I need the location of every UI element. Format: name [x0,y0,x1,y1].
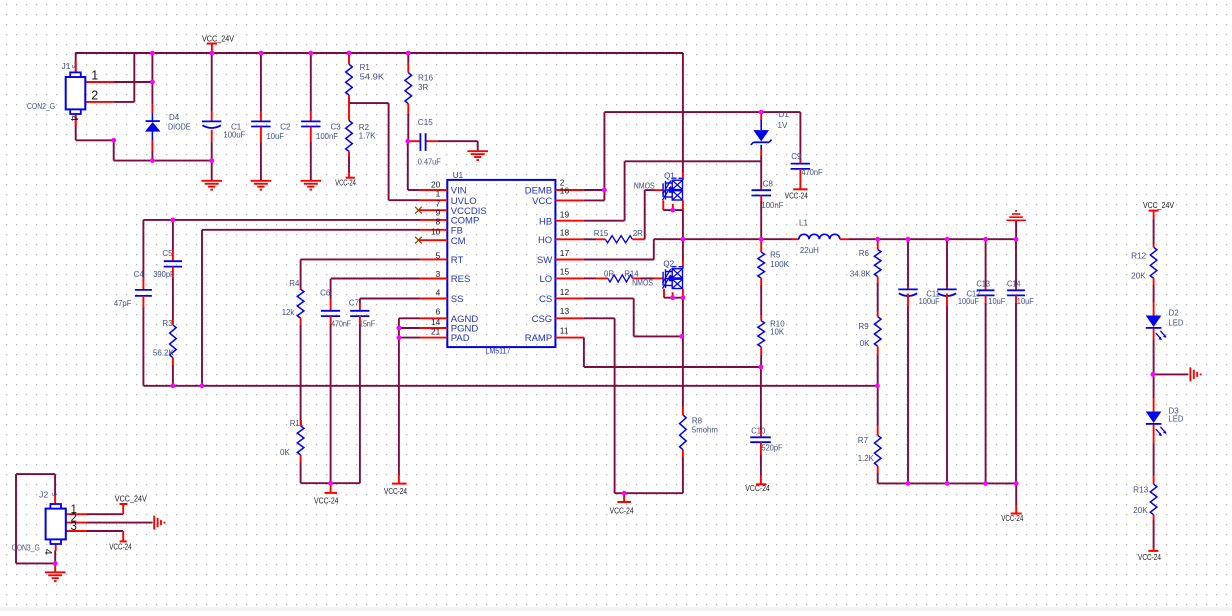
svg-text:5mohm: 5mohm [692,426,718,435]
svg-text:RT: RT [451,255,464,266]
svg-text:NMOS: NMOS [632,279,653,288]
svg-text:12: 12 [560,287,570,297]
svg-text:VCC-24: VCC-24 [745,484,770,493]
svg-text:C13: C13 [977,280,991,289]
svg-text:D4: D4 [169,113,180,122]
svg-text:13: 13 [560,306,570,316]
svg-text:15nF: 15nF [359,319,375,328]
svg-text:3R: 3R [418,83,428,92]
svg-text:R6: R6 [859,249,870,258]
svg-text:LO: LO [540,274,553,285]
svg-text:HB: HB [539,216,552,227]
svg-text:11: 11 [560,326,569,336]
svg-text:16: 16 [560,186,570,196]
svg-text:C5: C5 [162,249,173,258]
svg-text:L1: L1 [799,218,808,227]
svg-text:470nF: 470nF [331,319,351,328]
svg-text:VCC-24: VCC-24 [1001,514,1023,523]
svg-text:VCC: VCC [532,196,552,207]
svg-text:VCC_24V: VCC_24V [202,34,234,43]
svg-text:8: 8 [436,216,441,226]
svg-text:CSG: CSG [532,314,553,325]
svg-text:R8: R8 [692,416,703,425]
svg-text:100nF: 100nF [316,132,338,141]
svg-text:470nF: 470nF [802,168,823,177]
svg-text:R12: R12 [1131,252,1147,261]
svg-text:VCC-24: VCC-24 [384,487,407,496]
svg-text:VCC-24: VCC-24 [610,507,634,516]
svg-text:RAMP: RAMP [525,333,552,344]
svg-text:D2: D2 [1169,309,1180,318]
svg-text:1V: 1V [778,121,788,130]
svg-text:4: 4 [68,115,80,121]
svg-text:18: 18 [560,228,570,238]
svg-text:1: 1 [91,68,98,82]
svg-text:1: 1 [436,189,441,199]
svg-text:C9: C9 [791,152,802,161]
svg-text:R15: R15 [594,229,609,238]
svg-text:SW: SW [537,255,552,266]
svg-text:R5: R5 [770,251,781,260]
svg-text:R7: R7 [858,436,869,445]
svg-text:22uH: 22uH [800,246,819,255]
svg-text:5: 5 [436,250,441,260]
svg-text:DIODE: DIODE [168,122,191,131]
svg-text:20K: 20K [1131,271,1146,280]
svg-text:20K: 20K [1133,506,1148,515]
svg-text:PAD: PAD [451,333,470,344]
svg-text:34.8K: 34.8K [850,270,872,279]
svg-text:C4: C4 [134,270,145,279]
svg-text:NMOS: NMOS [634,182,655,191]
svg-text:6: 6 [436,306,441,316]
svg-text:VCC-24: VCC-24 [1138,553,1161,562]
svg-text:1.7K: 1.7K [359,132,377,141]
svg-text:2R: 2R [633,229,643,238]
svg-text:C3: C3 [331,123,342,132]
svg-text:3: 3 [436,269,441,279]
svg-text:C2: C2 [280,123,291,132]
svg-text:19: 19 [560,210,570,220]
svg-text:R16: R16 [418,74,434,83]
svg-text:47pF: 47pF [114,299,132,308]
svg-text:1.2K: 1.2K [858,454,875,463]
svg-text:0R: 0R [604,269,614,278]
svg-text:U1: U1 [453,171,464,180]
svg-text:3: 3 [71,521,77,533]
svg-text:VCC-24: VCC-24 [335,179,356,188]
svg-text:SS: SS [451,294,464,305]
svg-text:CS: CS [539,294,552,305]
svg-text:VCC_24V: VCC_24V [1143,201,1174,210]
svg-text:C7: C7 [349,299,360,308]
svg-text:100uF: 100uF [958,297,979,306]
svg-text:DEMB: DEMB [525,186,552,197]
svg-text:D1: D1 [779,110,790,119]
svg-text:3: 3 [50,493,57,497]
svg-text:R1: R1 [360,63,371,72]
svg-text:VCC-24: VCC-24 [109,543,132,552]
svg-text:R3: R3 [162,319,173,328]
svg-text:0K: 0K [860,339,870,348]
svg-text:15: 15 [560,266,570,276]
svg-text:4: 4 [42,549,54,555]
svg-text:HO: HO [538,235,552,246]
svg-text:R11: R11 [290,419,305,428]
svg-text:54.9K: 54.9K [360,73,385,82]
svg-text:VCC-24: VCC-24 [314,496,339,505]
svg-text:2: 2 [91,88,98,102]
svg-text:100nF: 100nF [761,201,783,210]
svg-text:R14: R14 [624,269,639,278]
svg-text:C15: C15 [418,118,434,127]
svg-text:520pF: 520pF [762,444,783,453]
svg-text:100uF: 100uF [223,131,245,140]
svg-text:J2: J2 [39,491,48,500]
svg-text:12k: 12k [282,308,295,317]
svg-text:100uF: 100uF [919,297,940,306]
svg-text:R9: R9 [859,322,870,331]
svg-text:C10: C10 [751,427,766,436]
svg-text:LED: LED [1169,415,1184,424]
svg-text:10uF: 10uF [988,297,1005,306]
svg-text:10K: 10K [770,327,785,336]
svg-text:R13: R13 [1133,486,1149,495]
svg-text:3: 3 [70,65,77,69]
svg-text:Q1: Q1 [664,171,675,180]
svg-text:C14: C14 [1007,280,1021,289]
svg-text:21: 21 [431,327,441,337]
svg-text:CON3_G: CON3_G [12,544,40,553]
svg-text:J1: J1 [62,62,71,71]
svg-text:0K: 0K [280,448,290,457]
svg-text:4: 4 [436,288,441,298]
svg-text:390pF: 390pF [153,270,175,279]
svg-text:10uF: 10uF [1017,297,1034,306]
svg-text:0.47uF: 0.47uF [418,158,441,167]
svg-text:FB: FB [451,225,463,236]
svg-text:10: 10 [431,226,441,236]
svg-text:R4: R4 [289,279,300,288]
svg-text:17: 17 [560,248,570,258]
svg-text:VCC-24: VCC-24 [785,191,808,200]
svg-text:CON2_G: CON2_G [27,102,55,111]
svg-text:VCC_24V: VCC_24V [115,494,147,503]
svg-text:Q2: Q2 [663,260,674,269]
svg-text:LM5117: LM5117 [485,346,510,355]
svg-text:C8: C8 [763,179,774,188]
svg-text:RES: RES [451,274,471,285]
svg-text:CM: CM [451,236,466,247]
svg-text:LED: LED [1169,318,1184,327]
svg-text:100K: 100K [770,260,790,269]
svg-text:C6: C6 [320,288,331,297]
svg-text:56.2K: 56.2K [153,348,175,357]
svg-text:10uF: 10uF [267,132,285,141]
